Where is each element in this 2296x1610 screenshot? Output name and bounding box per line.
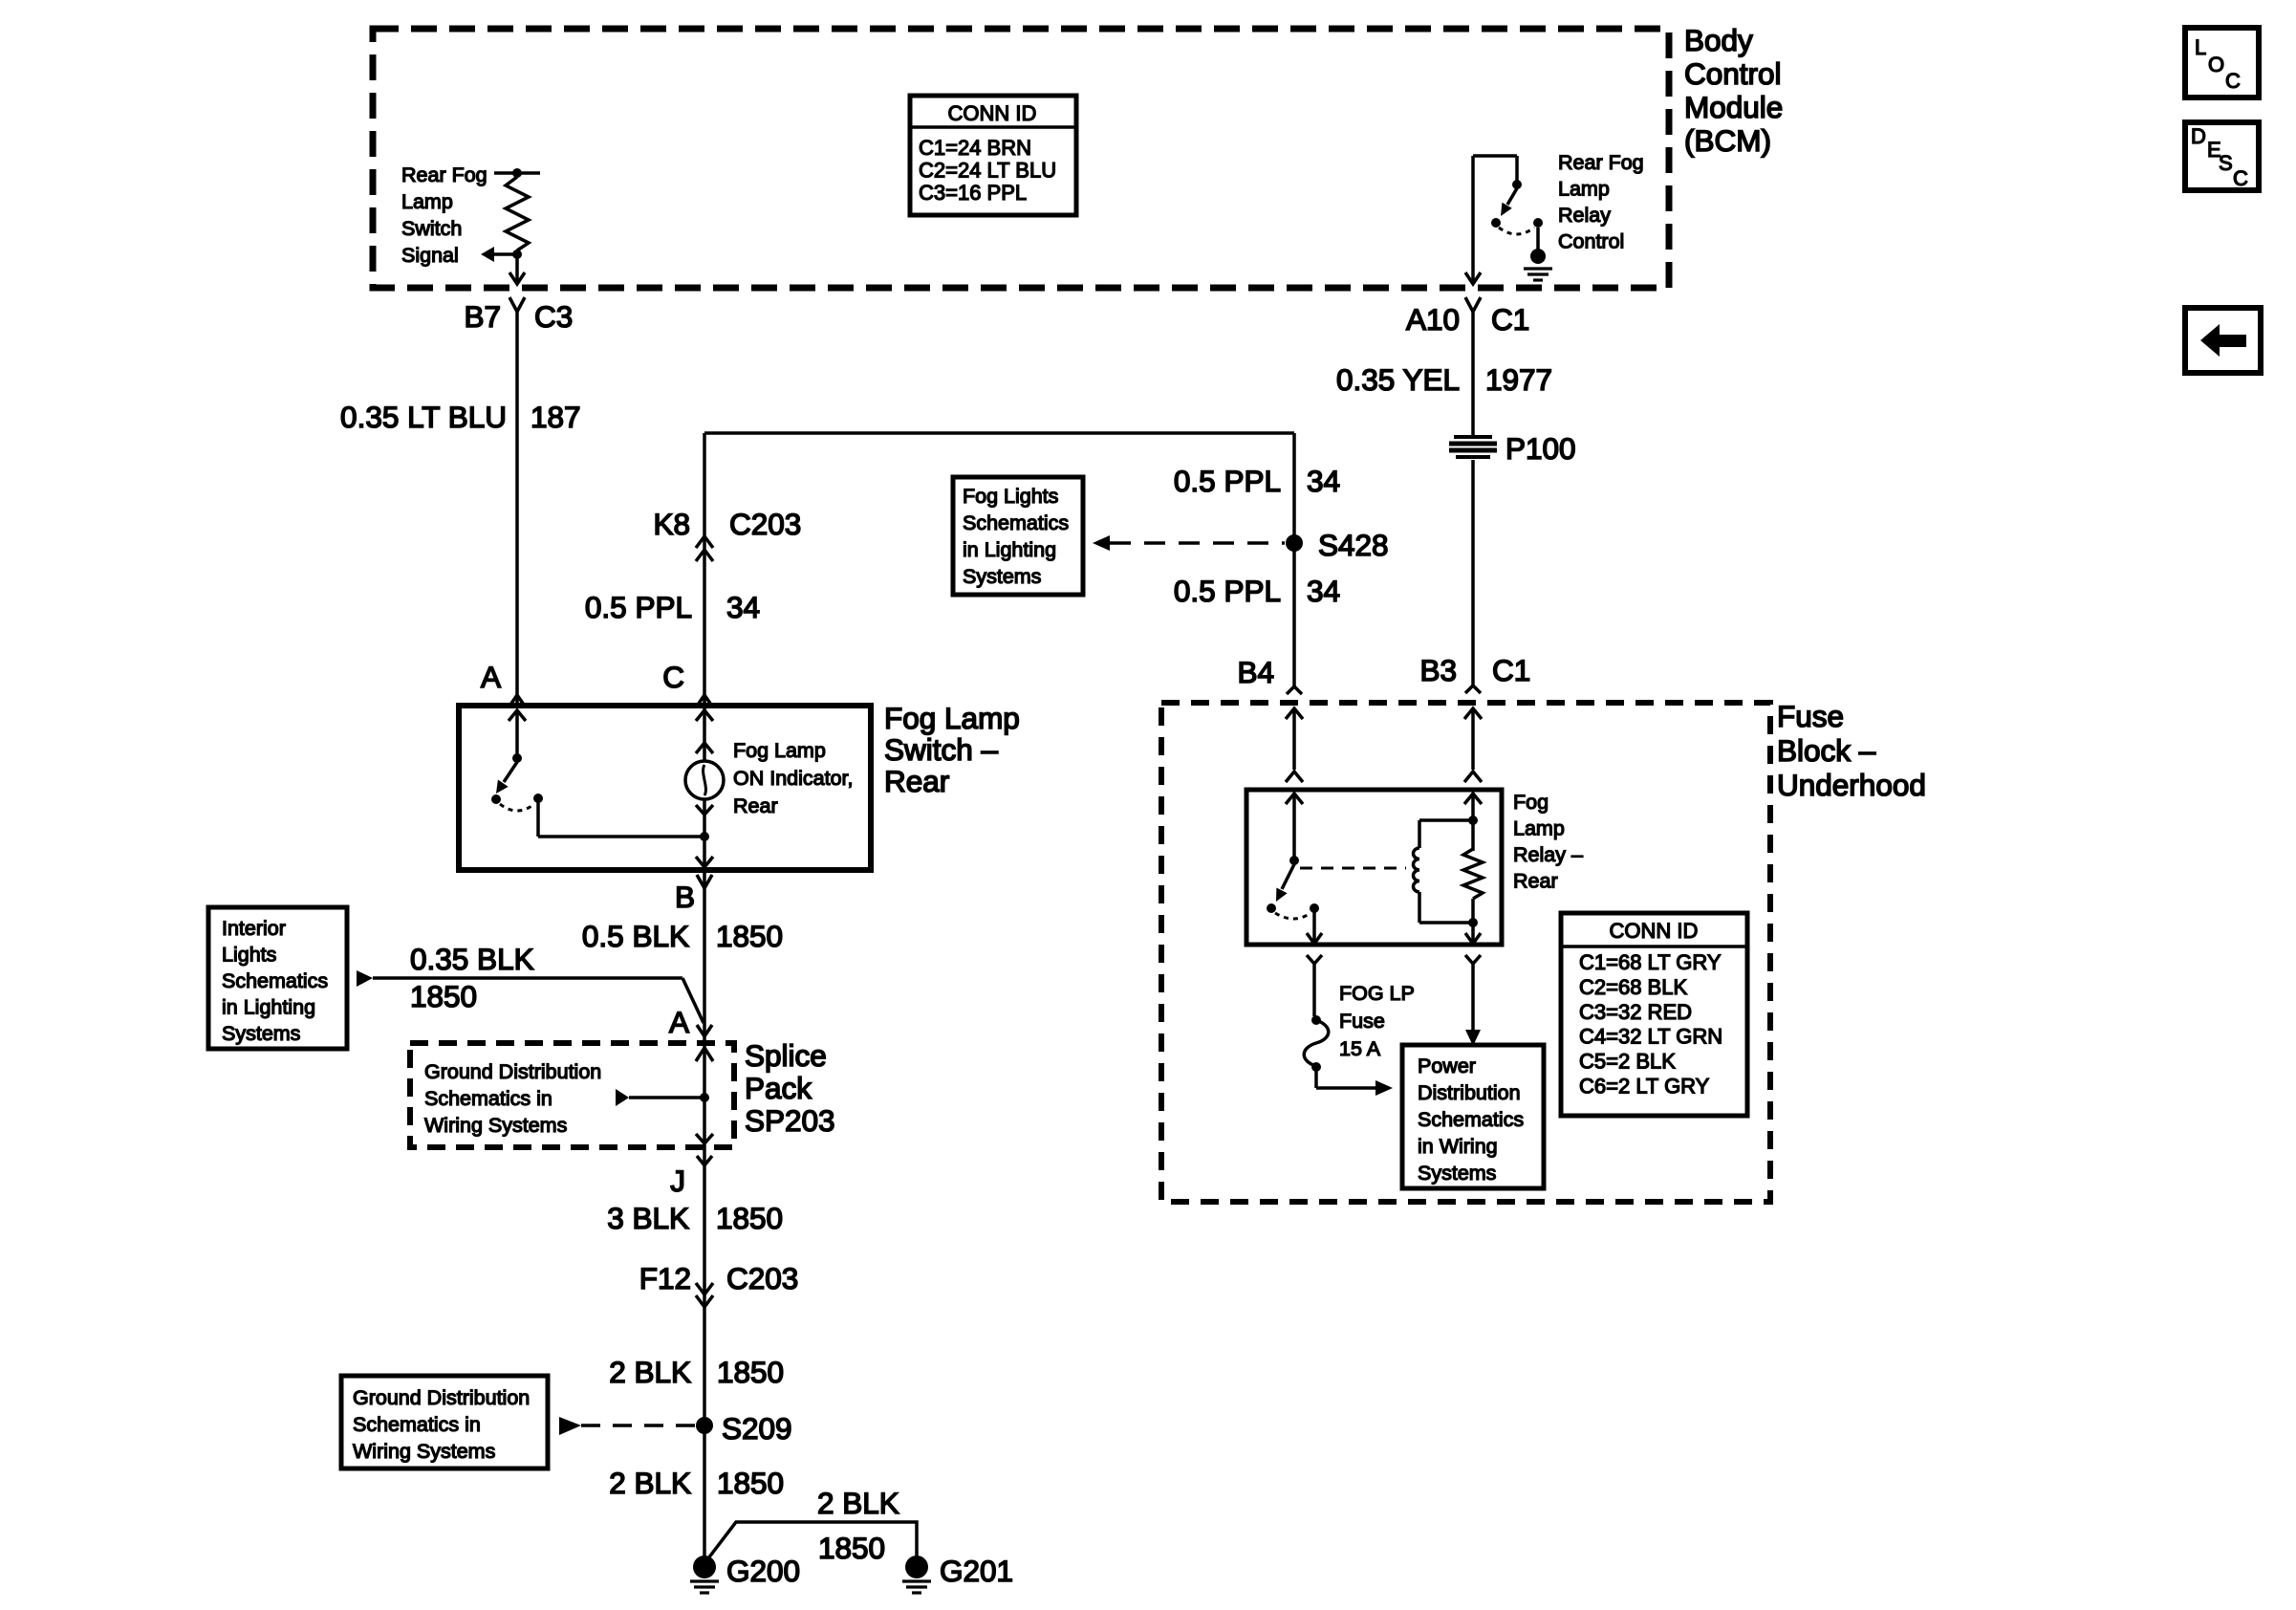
svg-text:B7: B7 xyxy=(464,299,501,334)
svg-text:Rear: Rear xyxy=(884,764,949,798)
svg-text:G201: G201 xyxy=(940,1554,1013,1588)
svg-text:0.35 LT BLU: 0.35 LT BLU xyxy=(340,400,507,434)
svg-text:C1: C1 xyxy=(1491,302,1529,337)
svg-text:2 BLK: 2 BLK xyxy=(609,1355,691,1389)
svg-text:B4: B4 xyxy=(1237,655,1274,689)
svg-text:0.35 BLK: 0.35 BLK xyxy=(410,942,534,976)
svg-text:0.35 YEL: 0.35 YEL xyxy=(1336,362,1460,397)
svg-text:Rear Fog: Rear Fog xyxy=(401,163,487,186)
svg-text:C: C xyxy=(2233,166,2248,190)
svg-text:Fog Lamp: Fog Lamp xyxy=(884,701,1020,735)
svg-text:Power: Power xyxy=(1418,1055,1476,1077)
svg-text:F12: F12 xyxy=(639,1261,691,1295)
svg-text:C3=32 RED: C3=32 RED xyxy=(1579,1000,1692,1024)
svg-text:C4=32 LT GRN: C4=32 LT GRN xyxy=(1579,1025,1722,1049)
svg-text:Lamp: Lamp xyxy=(1558,178,1610,201)
svg-text:C2=24 LT BLU: C2=24 LT BLU xyxy=(919,159,1056,183)
svg-text:Relay –: Relay – xyxy=(1513,843,1583,866)
svg-text:C2=68 BLK: C2=68 BLK xyxy=(1579,975,1687,999)
svg-text:C3: C3 xyxy=(534,299,573,334)
svg-text:187: 187 xyxy=(531,400,581,434)
svg-text:Body: Body xyxy=(1684,23,1753,57)
svg-text:Control: Control xyxy=(1558,230,1624,253)
svg-text:Schematics in: Schematics in xyxy=(424,1087,552,1110)
svg-text:Fog Lamp: Fog Lamp xyxy=(733,739,826,762)
svg-text:1850: 1850 xyxy=(410,979,477,1013)
svg-text:2 BLK: 2 BLK xyxy=(817,1486,899,1520)
svg-text:C1=24 BRN: C1=24 BRN xyxy=(919,136,1031,160)
svg-text:Relay: Relay xyxy=(1558,204,1611,227)
svg-text:SP203: SP203 xyxy=(745,1103,835,1138)
svg-text:Splice: Splice xyxy=(745,1038,827,1073)
svg-text:Systems: Systems xyxy=(222,1022,300,1045)
svg-text:1850: 1850 xyxy=(818,1531,885,1565)
svg-text:A10: A10 xyxy=(1406,302,1460,337)
svg-text:Switch: Switch xyxy=(401,217,462,240)
svg-text:Block –: Block – xyxy=(1777,733,1876,768)
svg-text:L: L xyxy=(2195,35,2206,59)
svg-text:1850: 1850 xyxy=(716,919,783,953)
svg-text:Signal: Signal xyxy=(401,244,459,267)
svg-text:D: D xyxy=(2191,124,2206,148)
svg-text:0.5 BLK: 0.5 BLK xyxy=(582,919,689,953)
svg-text:Wiring Systems: Wiring Systems xyxy=(424,1114,567,1137)
svg-text:Wiring Systems: Wiring Systems xyxy=(353,1440,495,1463)
svg-text:A: A xyxy=(669,1005,689,1039)
svg-text:Systems: Systems xyxy=(1418,1162,1496,1185)
svg-text:C5=2 BLK: C5=2 BLK xyxy=(1579,1050,1676,1074)
svg-text:Underhood: Underhood xyxy=(1777,768,1926,802)
svg-text:Pack: Pack xyxy=(745,1071,812,1105)
svg-text:S: S xyxy=(2219,151,2233,175)
svg-text:FOG LP: FOG LP xyxy=(1339,982,1415,1005)
svg-text:Switch –: Switch – xyxy=(884,732,999,767)
svg-text:C: C xyxy=(662,660,684,694)
svg-text:B3: B3 xyxy=(1419,653,1457,687)
svg-text:C: C xyxy=(2225,69,2241,93)
svg-text:34: 34 xyxy=(726,590,760,624)
svg-text:Control: Control xyxy=(1684,56,1782,91)
svg-text:1850: 1850 xyxy=(717,1355,784,1389)
svg-text:1977: 1977 xyxy=(1485,362,1552,397)
svg-text:Fog Lights: Fog Lights xyxy=(963,485,1058,508)
svg-text:34: 34 xyxy=(1307,574,1340,608)
svg-text:Schematics: Schematics xyxy=(963,511,1069,534)
svg-text:Module: Module xyxy=(1684,90,1783,124)
svg-text:Interior: Interior xyxy=(222,917,286,940)
svg-text:K8: K8 xyxy=(653,507,690,541)
svg-text:C1=68 LT GRY: C1=68 LT GRY xyxy=(1579,950,1722,974)
svg-text:Rear Fog: Rear Fog xyxy=(1558,151,1644,174)
svg-text:in Lighting: in Lighting xyxy=(963,538,1056,561)
svg-text:Distribution: Distribution xyxy=(1418,1081,1521,1104)
svg-text:Fuse: Fuse xyxy=(1777,699,1844,733)
svg-text:3 BLK: 3 BLK xyxy=(607,1201,689,1235)
svg-text:Schematics: Schematics xyxy=(222,969,328,992)
svg-text:0.5 PPL: 0.5 PPL xyxy=(1174,464,1281,498)
svg-text:in Lighting: in Lighting xyxy=(222,996,315,1019)
svg-text:Rear: Rear xyxy=(733,794,778,817)
svg-text:C3=16 PPL: C3=16 PPL xyxy=(919,181,1027,205)
svg-text:1850: 1850 xyxy=(717,1466,784,1500)
svg-text:CONN ID: CONN ID xyxy=(1610,919,1699,943)
svg-text:Schematics in: Schematics in xyxy=(353,1413,481,1436)
svg-text:0.5 PPL: 0.5 PPL xyxy=(585,590,692,624)
svg-text:S428: S428 xyxy=(1318,528,1389,562)
svg-text:15 A: 15 A xyxy=(1339,1037,1381,1060)
svg-text:Lamp: Lamp xyxy=(1513,817,1565,840)
svg-text:B: B xyxy=(675,880,695,914)
svg-text:Rear: Rear xyxy=(1513,870,1558,893)
svg-text:Systems: Systems xyxy=(963,565,1041,588)
svg-text:G200: G200 xyxy=(726,1554,800,1588)
svg-text:S209: S209 xyxy=(722,1411,792,1446)
svg-text:Fuse: Fuse xyxy=(1339,1010,1385,1033)
svg-text:Schematics: Schematics xyxy=(1418,1108,1524,1131)
svg-text:Ground Distribution: Ground Distribution xyxy=(424,1060,601,1083)
svg-text:C203: C203 xyxy=(729,507,801,541)
svg-text:P100: P100 xyxy=(1505,431,1576,466)
svg-text:Ground Distribution: Ground Distribution xyxy=(353,1386,530,1409)
svg-text:2 BLK: 2 BLK xyxy=(609,1466,691,1500)
svg-text:ON Indicator,: ON Indicator, xyxy=(733,767,853,790)
svg-text:Lights: Lights xyxy=(222,944,276,967)
svg-text:(BCM): (BCM) xyxy=(1684,123,1771,158)
svg-text:CONN ID: CONN ID xyxy=(948,101,1037,125)
svg-text:Lamp: Lamp xyxy=(401,190,453,213)
svg-text:C1: C1 xyxy=(1492,653,1530,687)
svg-text:A: A xyxy=(481,660,501,694)
svg-text:0.5 PPL: 0.5 PPL xyxy=(1174,574,1281,608)
svg-text:in Wiring: in Wiring xyxy=(1418,1135,1498,1158)
svg-text:O: O xyxy=(2208,53,2224,76)
svg-text:C6=2 LT GRY: C6=2 LT GRY xyxy=(1579,1075,1710,1099)
svg-text:34: 34 xyxy=(1307,464,1340,498)
svg-text:Fog: Fog xyxy=(1513,791,1549,814)
svg-text:1850: 1850 xyxy=(716,1201,783,1235)
svg-text:C203: C203 xyxy=(726,1261,798,1295)
svg-text:J: J xyxy=(670,1164,685,1198)
